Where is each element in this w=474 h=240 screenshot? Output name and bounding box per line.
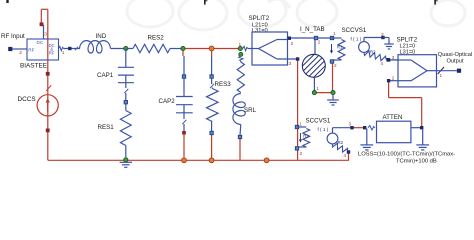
svg-text:RES2: RES2 [148,35,165,42]
svg-text:1: 1 [62,50,65,56]
svg-text:SPLIT2: SPLIT2 [249,15,270,22]
svg-text:CAP2: CAP2 [159,98,176,105]
svg-text:2: 2 [300,151,303,156]
svg-text:1: 1 [239,42,242,48]
svg-text:3: 3 [349,122,352,127]
svg-text:IND: IND [96,33,107,40]
svg-text:3: 3 [392,55,395,60]
svg-text:L31=0: L31=0 [252,28,268,34]
svg-text:SPLIT2: SPLIT2 [397,37,418,44]
svg-text:R2: R2 [338,140,344,145]
svg-text:RES3: RES3 [215,81,232,88]
svg-text:f ( 1 ): f ( 1 ) [318,127,329,132]
svg-text:4: 4 [381,61,384,66]
svg-text:Output: Output [446,58,463,64]
svg-text:1: 1 [440,73,443,78]
svg-text:2: 2 [19,50,22,56]
svg-text:4: 4 [344,153,347,158]
svg-text:LOSS=(10-100)/(TC-TCmin)/(TCma: LOSS=(10-100)/(TC-TCmin)/(TCmax- [358,152,455,158]
svg-text:2: 2 [318,40,321,45]
svg-text:RF Input: RF Input [1,33,25,40]
svg-text:2: 2 [334,63,337,68]
svg-text:f ( 1 ): f ( 1 ) [351,36,362,41]
svg-text:SCCVS1: SCCVS1 [306,118,331,125]
svg-text:RF: RF [28,47,34,52]
svg-text:3: 3 [44,32,47,38]
svg-text:1: 1 [333,31,336,36]
svg-text:2: 2 [291,41,294,47]
svg-text:3: 3 [289,61,292,67]
svg-text:I_N_TAB: I_N_TAB [300,26,325,33]
svg-text:ATTEN: ATTEN [383,114,403,121]
svg-text:DCCS: DCCS [18,96,36,103]
svg-text:R1: R1 [337,45,343,50]
svg-text:2: 2 [392,76,395,81]
svg-text:RF: RF [49,51,55,56]
svg-text:RES1: RES1 [98,124,115,131]
svg-text:SCCVS1: SCCVS1 [342,27,367,34]
svg-text:1: 1 [316,86,319,91]
svg-text:1: 1 [299,122,302,127]
svg-text:TCmin)+100 dB: TCmin)+100 dB [396,158,437,164]
svg-text:CAP1: CAP1 [97,72,114,79]
svg-text:R1: R1 [303,134,309,139]
svg-text:Quasi-Optical: Quasi-Optical [438,52,472,58]
svg-text:DC: DC [37,40,44,45]
svg-text:R2: R2 [370,50,376,55]
svg-text:3: 3 [381,32,384,37]
svg-text:BIASTEE: BIASTEE [20,62,47,69]
svg-text:SRL: SRL [244,107,257,114]
